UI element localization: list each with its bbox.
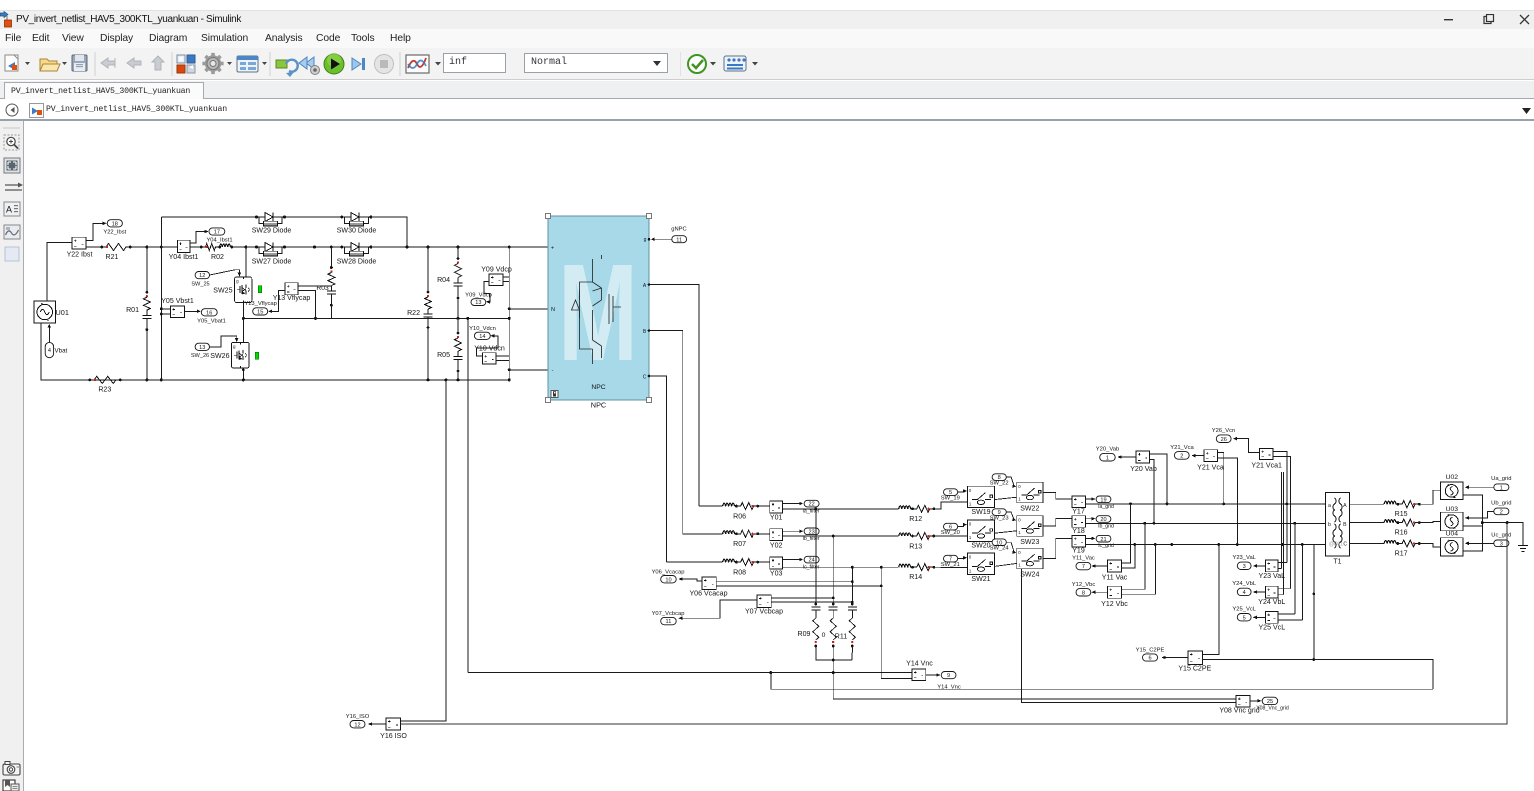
- input port 6 SW_20: [944, 523, 958, 530]
- svg-text:Y12 Vbc: Y12 Vbc: [1101, 601, 1128, 608]
- wire Y18 to port 20: [1086, 518, 1093, 520]
- svg-text:2: 2: [1180, 454, 1183, 460]
- svg-text:8: 8: [1082, 590, 1085, 596]
- wire midpoint drop to lower circuit: [467, 318, 469, 672]
- wire port 1 to U02: [1467, 486, 1494, 488]
- svg-text:19: 19: [1100, 497, 1106, 503]
- input port 7 SW_21: [944, 555, 958, 562]
- svg-text:R06: R06: [733, 513, 746, 520]
- wire Y21 Vca1 to port 26: [1234, 439, 1260, 453]
- wire phase into R07: [683, 533, 720, 535]
- input port 5 SW_19: [944, 489, 958, 496]
- wire R07 to sensor Y02: [757, 533, 770, 535]
- svg-text:Y11_Vac: Y11_Vac: [1072, 556, 1095, 562]
- svg-text:12: 12: [199, 273, 205, 279]
- wire R14 to SW21: [933, 566, 968, 568]
- svg-text:R05: R05: [437, 352, 450, 359]
- RC branch R22: [427, 247, 429, 292]
- step back: [299, 57, 320, 75]
- wire T1 to R15: [1350, 503, 1382, 505]
- svg-text:NPC: NPC: [591, 384, 605, 391]
- svg-text:1: 1: [1500, 485, 1503, 491]
- svg-text:Y26_Vcn: Y26_Vcn: [1212, 428, 1236, 434]
- wire Y02 to port 23: [783, 530, 801, 532]
- svg-text:17: 17: [214, 230, 220, 236]
- wire port 5 to SW19: [958, 491, 966, 492]
- svg-text:4: 4: [1243, 590, 1246, 596]
- NPC lock icon: [551, 391, 558, 398]
- output port 15 Y13_Vflycap: [253, 308, 268, 315]
- neutral sense wire to Y14: [468, 672, 912, 674]
- RC branch R05: [457, 318, 459, 333]
- wire Y15 to port 6: [1162, 657, 1188, 659]
- gear: [202, 53, 223, 74]
- wire drop to Vnc grid rail: [771, 673, 1433, 690]
- wire port 7 to SW21: [958, 557, 966, 560]
- output port 24 Ic_filter: [804, 556, 819, 563]
- wire R17 to source U04: [1418, 544, 1440, 547]
- wire Y12 to port 8: [1092, 591, 1108, 593]
- wire U01 bottom-left to bottom bus: [41, 323, 89, 380]
- flying cap sensor Y13 Vflycap: [285, 283, 298, 295]
- zoom tool: [4, 135, 19, 150]
- svg-text:11: 11: [666, 619, 672, 625]
- wire bus drop to SW25 collector: [245, 247, 247, 277]
- resistor R21: [103, 244, 129, 251]
- breaker SW20: [968, 520, 995, 541]
- wire port 11 to NPC gate: [653, 238, 672, 240]
- voltage sensor Y24 VbL: [1266, 586, 1278, 598]
- svg-text:1: 1: [1106, 455, 1109, 461]
- svg-text:Y14 Vnc: Y14 Vnc: [906, 660, 933, 667]
- svg-text:Ub_grid: Ub_grid: [1491, 501, 1511, 507]
- wire port 8 to SW22: [1006, 477, 1014, 487]
- wire Y03 to port 24: [783, 559, 801, 561]
- voltage sensor Y07 Vcbcap: [757, 595, 771, 607]
- inductor-resistor R14: [896, 566, 899, 568]
- long iso sense wire: [401, 523, 1508, 724]
- svg-text:SW26: SW26: [210, 353, 229, 360]
- wire R13 to SW20: [933, 535, 968, 537]
- wire SW25 emitter to midpoint: [242, 303, 244, 319]
- wires Y23 VaL to bundle: [1278, 562, 1287, 564]
- status LED SW26: [255, 352, 259, 359]
- wire Y13 right ports to R03 branch: [298, 285, 331, 287]
- inductor-resistor R12: [896, 508, 899, 510]
- svg-text:SW27 Diode: SW27 Diode: [252, 259, 292, 266]
- save icon: [72, 55, 87, 71]
- svg-text:Y07 Vcbcap: Y07 Vcbcap: [745, 608, 783, 615]
- svg-text:Y04 Ibst1: Y04 Ibst1: [169, 254, 199, 261]
- inductor-resistor R16: [1381, 522, 1384, 524]
- output port 25 Y08_Vnc_grid: [1262, 697, 1278, 704]
- wire NPC B output down: [649, 331, 683, 534]
- svg-text:Y08_Vnc_grid: Y08_Vnc_grid: [1256, 706, 1289, 712]
- svg-text:SW_19: SW_19: [941, 495, 960, 501]
- wire Y07 to port 11: [679, 600, 757, 618]
- wire Y11 to port 7: [1092, 565, 1108, 567]
- svg-text:23: 23: [808, 529, 814, 535]
- wire SW22 to Y17: [1043, 493, 1072, 500]
- inductor-resistor R15: [1381, 503, 1384, 505]
- IGBT SW26: [231, 342, 249, 368]
- voltage sensor Y11 Vac: [1108, 560, 1122, 572]
- input port 1 Ua_grid: [1494, 484, 1509, 491]
- resistor-inductor R02: [203, 244, 219, 251]
- svg-text:Y10 Vdcn: Y10 Vdcn: [474, 346, 505, 353]
- svg-text:U01: U01: [56, 308, 69, 317]
- svg-text:Y13_Vflycap: Y13_Vflycap: [244, 301, 277, 307]
- svg-text:18: 18: [112, 221, 118, 227]
- wire SW24 to Y19: [1043, 538, 1072, 558]
- wire R12 to SW19: [933, 502, 968, 509]
- output port 11 Y07_Vcbcap: [661, 617, 677, 624]
- diode SW27: [257, 246, 285, 248]
- NPC selection handles: [546, 214, 551, 219]
- RC branch R03: [330, 247, 332, 268]
- wire phase into R06: [699, 505, 720, 507]
- neutral vertical of grid sources: [1463, 495, 1483, 551]
- svg-text:Ib_filter: Ib_filter: [802, 536, 819, 542]
- svg-text:SW23: SW23: [1020, 539, 1039, 546]
- input port 2 Ub_grid: [1494, 508, 1509, 515]
- output port 22 Ia_filter: [804, 500, 819, 507]
- svg-text:26: 26: [1221, 437, 1227, 443]
- wire Y14 to port 9: [926, 674, 938, 676]
- svg-text:Y22_Ibst: Y22_Ibst: [103, 230, 126, 236]
- status LED SW25: [258, 286, 262, 293]
- voltage sensor Y14 Vnc: [912, 669, 926, 681]
- svg-text:T1: T1: [1333, 559, 1341, 566]
- grid rail Ia_grid: [1086, 503, 1326, 505]
- wire R08 to sensor Y03: [757, 561, 770, 563]
- svg-text:C: C: [1343, 542, 1347, 548]
- voltage sensor Y06 Vcacap: [702, 577, 716, 590]
- wire port 10 to SW24: [1006, 542, 1014, 553]
- input port 8 Y12_Vbc: [1076, 589, 1091, 596]
- output port 12 Y16_ISO: [350, 721, 365, 728]
- wire Y13 to port 15: [271, 291, 286, 312]
- wire Y24 VbL to port 4: [1254, 591, 1266, 593]
- IGBT SW25: [235, 277, 252, 303]
- svg-text:SW21: SW21: [971, 576, 990, 583]
- svg-text:15: 15: [257, 310, 263, 316]
- port Vbat (4): [45, 342, 53, 357]
- svg-text:4: 4: [48, 348, 51, 354]
- svg-text:Y24_VbL: Y24_VbL: [1232, 581, 1257, 587]
- wire SW21 to SW24: [994, 563, 1016, 566]
- breaker SW21: [968, 553, 995, 574]
- svg-text:A: A: [1343, 503, 1347, 509]
- svg-text:SW_25: SW_25: [191, 281, 209, 287]
- wire Y19 to port 21: [1086, 537, 1093, 539]
- voltage source U01: [34, 301, 56, 323]
- breaker SW22: [1017, 482, 1043, 503]
- svg-text:Y22 Ibst: Y22 Ibst: [67, 252, 93, 259]
- inductor-resistor R17: [1381, 543, 1384, 545]
- svg-text:11: 11: [676, 237, 682, 243]
- grid source U02: [1440, 482, 1462, 500]
- wire Y17 to port 19: [1086, 498, 1093, 500]
- wire NPC A output down: [649, 285, 699, 507]
- current sensor Y17: [1072, 496, 1086, 508]
- input port 12 SW_25: [195, 272, 209, 279]
- svg-text:Y12_Vbc: Y12_Vbc: [1072, 582, 1096, 588]
- svg-text:@D11: @D11: [1329, 542, 1344, 548]
- svg-text:SW_23: SW_23: [990, 516, 1009, 522]
- svg-text:Y09 Vdcp: Y09 Vdcp: [481, 266, 512, 273]
- svg-text:M: M: [558, 236, 638, 390]
- output port 13 Y09_Vdcp: [471, 299, 486, 306]
- svg-text:SW_24: SW_24: [990, 546, 1010, 552]
- svg-text:22: 22: [808, 502, 814, 508]
- output port 9 Y14_Vnc: [941, 672, 956, 679]
- svg-text:SW_20: SW_20: [941, 530, 960, 536]
- svg-text:Y24 VbL: Y24 VbL: [1258, 599, 1285, 606]
- svg-text:Ib_grid: Ib_grid: [1098, 524, 1114, 530]
- breadcrumb dropdown arrow: [1521, 107, 1533, 115]
- wire R21 to bus: [131, 246, 162, 248]
- wire R04 bottom to midpoint: [457, 298, 459, 318]
- svg-text:Uc_grid: Uc_grid: [1491, 533, 1511, 539]
- wire cap mid to Y08 input: [833, 698, 1236, 700]
- svg-text:0: 0: [822, 632, 826, 639]
- svg-text:Y09_Vdcp: Y09_Vdcp: [465, 293, 492, 299]
- annotation tool: [4, 202, 20, 216]
- legend/book icon: [3, 780, 19, 791]
- breaker SW23: [1017, 516, 1043, 537]
- output port 14 Y10_Vdcn: [474, 332, 490, 339]
- library browser icon: [177, 55, 195, 73]
- svg-text:SW28 Diode: SW28 Diode: [337, 259, 377, 266]
- wire R01 top drop: [146, 247, 148, 292]
- svg-text:21: 21: [1100, 537, 1106, 543]
- output port 20 Ib_grid: [1096, 516, 1111, 523]
- input port 4 Y24_VbL: [1237, 588, 1251, 595]
- input port 6 Y15_C2PE: [1143, 654, 1158, 661]
- run: [324, 53, 344, 74]
- svg-text:Y21 Vca: Y21 Vca: [1197, 464, 1224, 471]
- wire bottom bus drop to Y16: [445, 380, 447, 720]
- svg-text:SW22: SW22: [1020, 506, 1039, 513]
- window title Simulink icon: [0, 11, 14, 28]
- svg-text:Y01: Y01: [770, 515, 783, 522]
- voltage sensor Y21 Vca1: [1260, 448, 1274, 459]
- RC branch at x=852.3: [851, 603, 854, 606]
- svg-text:24: 24: [808, 558, 814, 564]
- svg-text:16: 16: [206, 310, 212, 316]
- svg-text:SW_26: SW_26: [191, 353, 209, 359]
- wire DC- to NPC: [509, 369, 548, 371]
- grid rail Ic_grid: [1086, 544, 1326, 546]
- wire Y02 output row: [783, 535, 896, 537]
- svg-text:R16: R16: [1395, 529, 1408, 536]
- NPC inner circuit drawing: [572, 255, 622, 364]
- svg-text:Y07_Vcbcap: Y07_Vcbcap: [652, 611, 685, 617]
- svg-text:2: 2: [1500, 510, 1503, 516]
- svg-text:SW29 Diode: SW29 Diode: [252, 228, 292, 235]
- svg-text:Y25 VcL: Y25 VcL: [1258, 624, 1285, 631]
- svg-text:R23: R23: [98, 387, 111, 394]
- svg-text:Y03: Y03: [770, 571, 783, 578]
- grid rail Ib_grid: [1086, 522, 1326, 524]
- wires Y15 taps: [1203, 545, 1219, 655]
- output port 17 Y04_Ibst1: [209, 228, 225, 235]
- inductor-resistor R07: [720, 533, 723, 535]
- svg-text:C: C: [643, 375, 647, 381]
- output port 10 Y06_Vcacap: [661, 576, 677, 583]
- wire Y03 output row: [783, 566, 896, 568]
- svg-text:Y11 Vac: Y11 Vac: [1102, 575, 1128, 582]
- svg-text:Vbat: Vbat: [55, 348, 68, 355]
- svg-text:20: 20: [1100, 517, 1106, 523]
- svg-text:b: b: [1328, 522, 1331, 528]
- wire port 12 to SW25 gate: [210, 270, 240, 275]
- svg-text:U02: U02: [1446, 474, 1459, 481]
- transformer T1: [1325, 493, 1349, 556]
- wire SW19 to SW22: [994, 497, 1016, 499]
- svg-text:Y16_ISO: Y16_ISO: [346, 714, 370, 720]
- inductor-resistor R06: [720, 505, 723, 507]
- svg-text:6: 6: [1148, 656, 1151, 662]
- svg-text:R21: R21: [106, 254, 119, 261]
- input port 13 SW_26: [195, 343, 209, 350]
- output port 21 Ic_grid: [1096, 535, 1111, 542]
- svg-text:R12: R12: [909, 516, 922, 523]
- input port 9 SW_23: [992, 509, 1006, 516]
- wire Y06 to port 10: [679, 579, 702, 581]
- wire Y20 to port 1: [1118, 456, 1136, 458]
- validate check icon: [688, 55, 706, 73]
- svg-text:g: g: [644, 237, 647, 243]
- wires Y24 VbL to bundle: [1278, 588, 1290, 590]
- inductor-resistor R13: [896, 535, 899, 537]
- current sensor Y22 Ibst: [72, 237, 86, 249]
- new model icon: [5, 55, 30, 71]
- svg-text:R01: R01: [126, 307, 139, 314]
- svg-text:Y21_Vca: Y21_Vca: [1170, 445, 1194, 451]
- input port 26 Y26_Vcn: [1216, 435, 1231, 443]
- wire Y21 Vca to port 2: [1192, 455, 1204, 457]
- subsystem NPC: [548, 216, 649, 400]
- wire Y01 output row: [783, 508, 896, 510]
- svg-text:Y23 VaL: Y23 VaL: [1259, 573, 1286, 580]
- wire SW27 to SW28: [285, 246, 342, 248]
- svg-text:R07: R07: [733, 541, 746, 548]
- RC branch at x=833.2: [832, 603, 835, 606]
- wire Y08 to port 25: [1250, 700, 1259, 702]
- svg-text:10: 10: [665, 577, 671, 583]
- svg-text:gNPC: gNPC: [671, 227, 686, 233]
- update diagram icon: [276, 60, 298, 77]
- svg-text:R17: R17: [1395, 550, 1408, 557]
- camera icon: [3, 762, 20, 776]
- wire R06 to sensor Y01: [757, 505, 770, 507]
- wire port 2 to U03: [1467, 511, 1494, 518]
- input port 8 SW_22: [992, 474, 1006, 481]
- voltage sensor Y16 ISO: [386, 718, 401, 730]
- svg-text:R09: R09: [798, 631, 811, 638]
- svg-text:R13: R13: [909, 544, 922, 551]
- wire Y22 to R21: [86, 246, 101, 248]
- input port 7 Y11_Vac: [1076, 562, 1091, 569]
- svg-text:Y08 Vnc grid: Y08 Vnc grid: [1219, 708, 1259, 715]
- wire Y16 to port 12: [370, 723, 386, 725]
- step forward: [352, 58, 365, 70]
- wire Y23 VaL to port 3: [1254, 565, 1266, 567]
- current sensor Y04 Ibst1: [177, 240, 190, 252]
- wires Y11 to rails: [1122, 504, 1131, 563]
- wires Y09 right ports to DC+ rail: [503, 247, 509, 277]
- svg-text:B: B: [1343, 522, 1347, 528]
- resistor R23: [91, 376, 119, 383]
- swatch: [5, 247, 19, 261]
- inf edit field: [443, 53, 506, 73]
- svg-text:3: 3: [1243, 564, 1246, 570]
- wire Y01 to port 22: [783, 503, 801, 505]
- svg-text:Y14_Vnc: Y14_Vnc: [937, 685, 961, 691]
- nav back/fwd/up (disabled): [101, 58, 115, 68]
- wire SW24 neutral drop to Y08: [1021, 569, 1236, 703]
- svg-text:Y25_VcL: Y25_VcL: [1232, 607, 1256, 613]
- wire SW20 to SW23: [994, 531, 1016, 533]
- wire Y04 to R02: [190, 246, 201, 248]
- wires Y07 measure taps: [771, 597, 833, 599]
- voltage sensor Y08 Vnc grid: [1236, 696, 1250, 708]
- wire SW28 to R04 area: [371, 246, 548, 248]
- svg-text:7: 7: [1082, 564, 1085, 570]
- svg-text:Y20_Vab: Y20_Vab: [1096, 446, 1119, 452]
- wire R16 to source U03: [1418, 521, 1440, 522]
- svg-text:R15: R15: [1395, 511, 1408, 518]
- vertical bundle to transformer area: [1281, 472, 1283, 569]
- svg-text:-: -: [552, 368, 554, 374]
- voltage sensor Y10 Vdcn: [482, 353, 496, 364]
- breaker SW19: [968, 486, 995, 507]
- svg-text:Y02: Y02: [770, 542, 783, 549]
- left rail: [160, 217, 162, 380]
- wire Y16 upper input: [401, 720, 446, 722]
- wire Y25 VcL to port 5: [1254, 616, 1266, 618]
- cap bank bottom bus: [816, 653, 852, 660]
- wire T1 to R17: [1350, 543, 1382, 545]
- wires Y21 Vca to rails: [1218, 453, 1224, 504]
- ground symbol: [1518, 545, 1528, 551]
- model explorer table icon: [237, 56, 258, 72]
- wires Y20 to rails: [1150, 454, 1167, 504]
- svg-text:Y10_Vdcn: Y10_Vdcn: [469, 326, 496, 332]
- svg-text:R11: R11: [835, 634, 847, 641]
- breaker SW24: [1017, 548, 1043, 569]
- wire Y05 to port 16: [185, 310, 199, 312]
- svg-text:R02: R02: [211, 254, 224, 261]
- output port 16 Y05_Vbat1: [201, 309, 217, 316]
- svg-text:3: 3: [1500, 541, 1503, 547]
- svg-text:Y05_Vbat1: Y05_Vbat1: [197, 318, 226, 324]
- wire NPC C output down: [649, 376, 666, 562]
- voltage sensor Y20 Vab: [1136, 451, 1150, 463]
- wire U01 top to Y22: [47, 243, 72, 302]
- svg-text:Y05 Vbst1: Y05 Vbst1: [161, 298, 194, 305]
- wire port 13 to SW26 gate: [210, 336, 237, 347]
- image annotation tool: [4, 225, 20, 239]
- voltage sensor Y05 Vbst1: [170, 306, 184, 318]
- wire port 6 to SW20: [958, 525, 966, 527]
- breadcrumb back button: [5, 103, 19, 117]
- svg-text:SW25: SW25: [213, 287, 232, 294]
- svg-text:Y23_VaL: Y23_VaL: [1232, 555, 1256, 561]
- svg-text:Ia_grid: Ia_grid: [1098, 504, 1114, 510]
